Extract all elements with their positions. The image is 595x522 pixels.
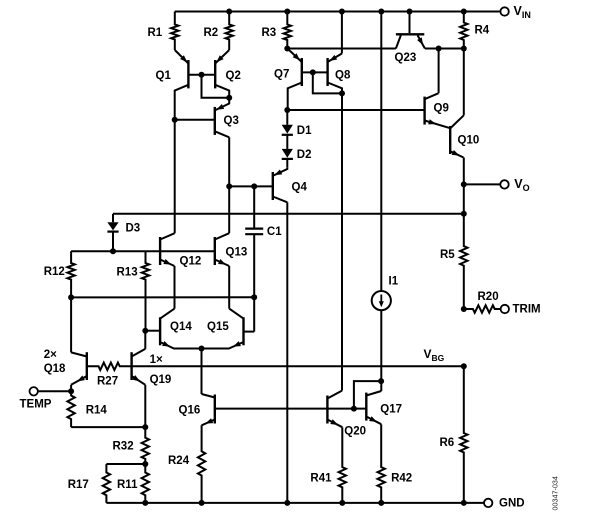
- current source I1: [380, 12, 382, 292]
- resistor R2: [226, 12, 233, 51]
- junction R4 bottom node: [461, 46, 467, 52]
- wire V_O output: [464, 183, 501, 185]
- diode D1: [286, 110, 288, 125]
- transistor Q15: [242, 317, 244, 345]
- resistor R32: [142, 427, 149, 464]
- svg-text:I1: I1: [389, 276, 399, 288]
- resistor R41: [339, 427, 346, 503]
- wire Q10 collector riser: [463, 49, 465, 116]
- junction Q2 collector tie: [226, 95, 232, 101]
- resistor R42: [378, 424, 385, 503]
- resistor R5: [460, 214, 467, 309]
- svg-text:D2: D2: [297, 149, 312, 161]
- junction GND / Q4 collector: [284, 500, 290, 506]
- junction V_BG / R5-R6: [461, 363, 467, 369]
- svg-text:Q20: Q20: [344, 426, 366, 438]
- resistor R20: [464, 305, 501, 312]
- junction GND / R6: [461, 500, 467, 506]
- wire upper node row (R3 bottom to Q23 emitter): [287, 48, 396, 50]
- junction R32 bottom: [142, 461, 148, 467]
- wire Q4 base line: [229, 185, 273, 187]
- svg-text:Q18: Q18: [44, 363, 66, 375]
- junction R20 tap: [461, 306, 467, 312]
- terminal TRIM: [501, 305, 509, 313]
- svg-text:Q23: Q23: [395, 52, 417, 64]
- transistor Q23: [396, 33, 424, 35]
- svg-text:Q1: Q1: [156, 70, 172, 82]
- resistor R13: [142, 251, 149, 331]
- transistor Q4: [272, 172, 274, 200]
- resistor R17: [103, 464, 110, 503]
- junction Q8 collector tie: [339, 90, 345, 96]
- junction top rail / Q23 base: [407, 9, 413, 15]
- junction V_O node: [461, 181, 467, 187]
- wire R14 bottom link: [71, 426, 145, 428]
- svg-text:Q3: Q3: [224, 115, 239, 127]
- wire GND rail: [106, 502, 484, 504]
- wire R17/R11 top link: [106, 463, 145, 465]
- junction GND / R41: [339, 500, 345, 506]
- resistor R6: [460, 366, 467, 503]
- junction GND / R42: [378, 500, 384, 506]
- wire Q15 base line: [244, 331, 255, 333]
- resistor R4: [460, 12, 467, 49]
- svg-text:R32: R32: [113, 440, 134, 452]
- resistor R1: [171, 12, 178, 51]
- svg-text:R2: R2: [204, 27, 219, 39]
- wire Q13 emitter to Q15 collector column: [228, 266, 230, 309]
- junction top rail / R2: [226, 9, 232, 15]
- svg-text:R17: R17: [68, 479, 89, 491]
- svg-text:Q14: Q14: [170, 321, 192, 333]
- svg-text:R20: R20: [478, 291, 499, 303]
- wire Q9 base line: [287, 109, 424, 111]
- transistor Q9: [423, 97, 425, 125]
- svg-text:R12: R12: [44, 266, 65, 278]
- junction GND / R11: [142, 500, 148, 506]
- resistor R11: [142, 464, 149, 503]
- svg-text:TEMP: TEMP: [20, 399, 52, 411]
- wire Q19 emitter column: [144, 385, 146, 427]
- wire Q23 base from rail: [409, 12, 411, 34]
- wire V_O column: [463, 158, 465, 214]
- wire C1 bottom to Q15 base: [253, 297, 255, 331]
- svg-text:00347-034: 00347-034: [551, 476, 560, 510]
- terminal V_O: [500, 180, 508, 188]
- svg-text:R41: R41: [310, 473, 332, 485]
- svg-text:1×: 1×: [150, 354, 163, 366]
- resistor R14: [67, 391, 74, 427]
- svg-text:R11: R11: [117, 479, 138, 491]
- wire Q14 base line: [145, 330, 160, 332]
- wire I1 to bias loop: [354, 381, 381, 409]
- transistor Q10: [449, 126, 451, 154]
- junction R3-Q7 emitter node: [284, 46, 290, 52]
- junction C1 bottom rail: [251, 294, 257, 300]
- transistor Q19: [130, 352, 132, 380]
- wire feedback rail (V_O to D3): [113, 213, 464, 215]
- svg-text:Q10: Q10: [458, 135, 480, 147]
- svg-text:C1: C1: [267, 226, 282, 238]
- wire V_BG rail: [132, 365, 464, 367]
- transistor Q8: [326, 58, 328, 86]
- wire V_IN top rail: [175, 11, 501, 13]
- transistor Q18: [86, 352, 88, 380]
- junction Q4 base / C1: [251, 183, 257, 189]
- svg-text:Q15: Q15: [207, 321, 229, 333]
- junction feedback rail / R5: [461, 211, 467, 217]
- svg-text:Q17: Q17: [380, 404, 402, 416]
- svg-text:R42: R42: [391, 473, 412, 485]
- terminal V_IN: [500, 7, 508, 15]
- wire Q1-Q2 base tie: [188, 74, 215, 76]
- junction Q1-Q2 bases: [199, 72, 205, 78]
- transistor Q3: [214, 107, 216, 135]
- capacitor C1: [253, 186, 255, 228]
- junction TEMP / Q18 emitter: [68, 388, 74, 394]
- transistor Q7: [301, 58, 303, 86]
- junction D1 top / Q9 base: [284, 107, 290, 113]
- transistor Q17: [365, 393, 367, 421]
- svg-text:Q19: Q19: [150, 374, 172, 386]
- diode D3: [112, 214, 114, 222]
- junction R12 bottom rail: [68, 294, 74, 300]
- transistor Q20: [326, 396, 328, 424]
- svg-text:D1: D1: [297, 125, 312, 137]
- junction top rail / R3: [284, 9, 290, 15]
- transistor Q16: [214, 395, 216, 424]
- junction I1 output: [378, 378, 384, 384]
- wire emitter degeneration rail: [71, 296, 254, 298]
- transistor Q1: [187, 60, 189, 88]
- svg-text:Q4: Q4: [292, 182, 308, 194]
- junction D3 bottom: [110, 248, 116, 254]
- svg-text:Q9: Q9: [434, 103, 449, 115]
- svg-text:Q7: Q7: [274, 69, 289, 81]
- junction GND / R24: [199, 500, 205, 506]
- svg-text:Q12: Q12: [180, 256, 202, 268]
- junction Q4 base / Q3 collector: [226, 183, 232, 189]
- terminal TEMP: [30, 387, 38, 395]
- transistor Q13: [214, 237, 216, 265]
- junction Q7-Q8 bases: [310, 69, 316, 75]
- svg-text:Q16: Q16: [179, 405, 201, 417]
- junction R13 / Q19 collector / Q14 base: [142, 328, 148, 334]
- svg-text:GND: GND: [499, 498, 525, 510]
- resistor R27: [87, 363, 132, 370]
- wire Q18 collector column: [70, 297, 72, 352]
- wire Q16/Q20/Q17 base line: [215, 408, 366, 410]
- wire Q7-Q8 base tie: [302, 71, 328, 73]
- wire Q3 base line: [175, 119, 215, 121]
- wire Q1-Q2 base-to-collector link: [202, 75, 230, 98]
- svg-text:R4: R4: [475, 25, 490, 37]
- svg-text:R27: R27: [97, 375, 118, 387]
- svg-text:D3: D3: [126, 222, 141, 234]
- transistor Q2: [214, 60, 216, 88]
- wire Q7-Q8 base-to-collector link: [313, 72, 342, 93]
- svg-text:R14: R14: [86, 404, 108, 416]
- junction R32 top: [142, 424, 148, 430]
- junction Q23-Q9 collectors: [436, 46, 442, 52]
- terminal GND: [484, 499, 492, 507]
- resistor R3: [284, 12, 291, 49]
- svg-text:R13: R13: [117, 267, 138, 279]
- wire Q8 emitter feed from rail: [341, 12, 343, 54]
- svg-text:R24: R24: [168, 455, 190, 467]
- wire Q8 collector to Q20 collector column: [341, 93, 343, 390]
- junction top rail / Q8 emitter: [339, 9, 345, 15]
- wire TEMP lead: [38, 390, 71, 392]
- svg-text:R3: R3: [262, 27, 277, 39]
- wire Q16 collector column: [201, 349, 203, 395]
- diode D2: [282, 149, 293, 158]
- junction Q14-Q15 emitters: [199, 346, 205, 352]
- resistor R24: [198, 425, 205, 503]
- wire Q19 collector riser: [144, 331, 146, 349]
- svg-text:TRIM: TRIM: [513, 304, 541, 316]
- svg-text:Q8: Q8: [335, 70, 351, 82]
- wire Q4 collector to GND column: [286, 202, 288, 503]
- svg-text:R5: R5: [440, 249, 455, 261]
- svg-text:2×: 2×: [44, 349, 57, 361]
- transistor Q12: [159, 237, 161, 265]
- wire Q9 collector riser: [438, 49, 440, 94]
- wire mirror base line (R12 to Q13): [71, 250, 215, 252]
- wire Q18 emitter to TEMP node: [70, 385, 72, 392]
- transistor Q14: [159, 317, 161, 345]
- junction Q3 base node: [172, 117, 178, 123]
- svg-text:R6: R6: [440, 437, 455, 449]
- wire Q12 emitter to Q14 collector column: [174, 266, 176, 309]
- wire Q1/Q12 collector column: [174, 120, 176, 233]
- junction top rail / R4: [461, 9, 467, 15]
- junction top rail / I1: [378, 9, 384, 15]
- wire upper node row (Q23 collector to R4 bottom): [425, 48, 464, 50]
- wire Q4 base to Q13 collector column: [228, 186, 230, 233]
- junction bias base line: [351, 406, 357, 412]
- svg-text:Q13: Q13: [226, 247, 248, 259]
- wire Q3 collector column: [228, 137, 230, 186]
- svg-text:Q2: Q2: [226, 70, 241, 82]
- resistor R12: [67, 251, 74, 297]
- svg-text:R1: R1: [148, 27, 163, 39]
